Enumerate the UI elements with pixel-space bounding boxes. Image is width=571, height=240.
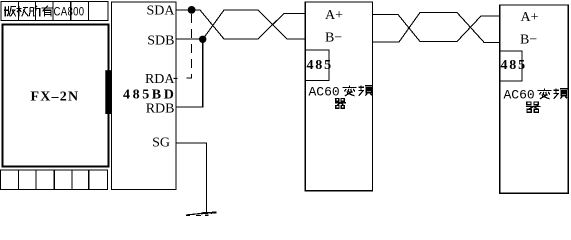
terminal strip bottom of FX-2N PLC bbox=[1, 170, 108, 190]
second inverter box bbox=[500, 5, 568, 193]
node junction dot on SDB bbox=[199, 36, 206, 43]
svg-text:SG: SG bbox=[152, 136, 170, 151]
label AC60变频器 box2 bbox=[504, 88, 568, 113]
svg-text:RDA: RDA bbox=[145, 72, 175, 87]
svg-text:485BD: 485BD bbox=[123, 88, 176, 103]
first inverter box bbox=[305, 2, 372, 191]
wire SG to earth bbox=[176, 143, 207, 212]
svg-text:SDA: SDA bbox=[146, 4, 175, 19]
wire twisted pair 1 line B (SDB to B-) bbox=[176, 10, 305, 39]
solid jumper SDB-RDB bbox=[176, 41, 203, 107]
wire twisted pair 1 line A (SDA to A+) bbox=[176, 10, 305, 39]
svg-text:485: 485 bbox=[307, 58, 333, 73]
svg-text:CA800: CA800 bbox=[54, 5, 85, 18]
485 port box 2 bbox=[500, 51, 522, 81]
svg-text:B−: B− bbox=[325, 31, 342, 46]
svg-text:FX–2N: FX–2N bbox=[31, 90, 80, 105]
svg-text:A+: A+ bbox=[325, 8, 343, 23]
RDA pin stub bbox=[174, 77, 178, 79]
svg-text:AC60: AC60 bbox=[504, 88, 535, 103]
wire twisted pair 2 line B bbox=[373, 13, 501, 43]
svg-text:AC60: AC60 bbox=[309, 85, 340, 100]
svg-text:B−: B− bbox=[520, 33, 537, 48]
wire twisted pair 2 line A bbox=[373, 15, 501, 42]
svg-text:485: 485 bbox=[501, 58, 527, 73]
485BD interface board box bbox=[112, 2, 177, 190]
dashed jumper SDA-RDA bbox=[183, 14, 192, 78]
svg-text:A+: A+ bbox=[521, 10, 539, 25]
ground (earth) symbol bbox=[186, 212, 217, 216]
FX-2N PLC main unit box bbox=[3, 25, 109, 167]
485 port box 1 bbox=[305, 50, 329, 81]
svg-text:RDB: RDB bbox=[146, 102, 175, 117]
expansion connector bar bbox=[105, 70, 111, 114]
label AC60变频器 box1 bbox=[309, 85, 373, 109]
node junction dot on SDA bbox=[188, 6, 196, 14]
terminal strip top of FX-2N PLC bbox=[1, 2, 108, 21]
watermark text 版权所有CA800 bbox=[4, 5, 84, 18]
svg-text:SDB: SDB bbox=[147, 34, 174, 49]
